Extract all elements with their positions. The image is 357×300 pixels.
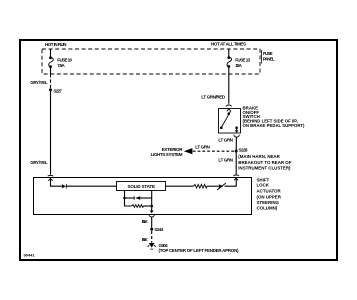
node B <box>150 205 153 208</box>
svg-text:HOT IN RUN: HOT IN RUN <box>45 42 67 47</box>
svg-text:BLK: BLK <box>142 219 149 224</box>
svg-text:(TOP CENTER OF LEFT FENDER APR: (TOP CENTER OF LEFT FENDER APRON) <box>159 248 240 253</box>
connector at shift lock actuator left entry <box>48 175 54 180</box>
svg-text:FUSE 13: FUSE 13 <box>235 58 250 63</box>
svg-text:90441: 90441 <box>24 253 36 258</box>
label FUSE PANEL <box>262 50 276 64</box>
node at left pin <box>123 197 126 200</box>
diode D3 <box>134 196 140 200</box>
wire node down and to resistor R2 <box>125 198 132 206</box>
svg-text:SOLID STATE: SOLID STATE <box>128 184 156 189</box>
svg-text:GRY/YEL: GRY/YEL <box>30 80 48 85</box>
splice S228 <box>235 150 238 153</box>
svg-text:LT GRN: LT GRN <box>218 138 233 143</box>
svg-text:LT GRN: LT GRN <box>195 145 210 150</box>
svg-text:15A: 15A <box>235 63 242 68</box>
wire diode D2 to right entry <box>225 179 237 187</box>
label FUSE 13 15A <box>235 58 250 68</box>
label EXTERIOR LIGHTS SYSTEM <box>151 147 184 157</box>
wire solid state left pin down <box>124 191 126 198</box>
resistor R2 <box>132 205 144 208</box>
connector at brake switch input <box>226 105 232 111</box>
svg-text:LT GRN/RED: LT GRN/RED <box>201 94 226 99</box>
wire (dashed) S228 to exterior lights system <box>188 150 235 152</box>
wire fuse F13 to brake switch <box>228 66 230 103</box>
ground G304 <box>148 243 156 249</box>
svg-text:PANEL: PANEL <box>263 57 275 62</box>
wire solid state to resistor R1 <box>166 185 194 187</box>
diagram border frame <box>20 40 337 260</box>
svg-text:G304: G304 <box>159 243 169 248</box>
svg-text:LIGHTS SYSTEM: LIGHTS SYSTEM <box>151 152 183 157</box>
resistor R1 <box>193 184 206 188</box>
wire solid state right pin down <box>151 191 153 206</box>
fuse panel (dashed box) <box>42 49 260 74</box>
svg-text:(MAIN HARN, NEAR: (MAIN HARN, NEAR <box>238 154 280 159</box>
wire S227 to shift lock actuator connector <box>50 90 52 175</box>
svg-text:COLUMN): COLUMN) <box>257 206 278 211</box>
svg-text:BLK: BLK <box>142 237 149 242</box>
svg-text:FUSE 10: FUSE 10 <box>57 57 72 62</box>
svg-text:INSTRUMENT CLUSTER): INSTRUMENT CLUSTER) <box>238 165 291 170</box>
svg-text:HOT AT ALL TIMES: HOT AT ALL TIMES <box>211 42 246 47</box>
wire (dashed) S244 to ground <box>151 231 153 243</box>
wire S228 to shift lock actuator <box>235 151 237 175</box>
wire exit to splice S244 <box>151 217 153 228</box>
wire brake switch to splice S228 <box>235 137 237 151</box>
svg-text:(ON UPPER: (ON UPPER <box>257 195 282 200</box>
splice S244 <box>150 228 153 231</box>
diode D2 (with slash) <box>217 183 226 190</box>
shift lock actuator box <box>34 178 252 215</box>
wire node to diode D3 <box>125 197 135 199</box>
wire diode D3 to right vertical <box>140 197 151 199</box>
svg-text:ACTUATOR: ACTUATOR <box>257 189 282 194</box>
svg-text:S244: S244 <box>154 227 163 232</box>
diode D1 <box>62 184 67 188</box>
svg-text:STEERING: STEERING <box>257 200 280 205</box>
wire left entry to diode D1 <box>51 179 62 186</box>
brake on/off switch U1 <box>219 109 241 134</box>
label BRAKE ON/OFF SWITCH (BEHIND LEFT SIDE OF I/P, ON BRAKE PEDAL SUPPORT) <box>243 106 306 128</box>
wire diode D1 to solid state module <box>66 185 117 187</box>
wire resistor R2 to node B <box>143 205 151 207</box>
svg-text:GRY/YEL: GRY/YEL <box>30 160 48 165</box>
svg-text:FUSE: FUSE <box>263 51 273 56</box>
svg-text:7.5A: 7.5A <box>57 63 65 68</box>
svg-text:LOCK: LOCK <box>257 183 270 188</box>
connector at shift lock actuator right entry <box>233 175 239 180</box>
connector at shift lock actuator bottom exit <box>149 211 154 217</box>
svg-text:LT GRN: LT GRN <box>218 158 233 163</box>
label SHIFT LOCK ACTUATOR (ON UPPER STEERING COLUMN) <box>257 177 282 210</box>
fuse F13 <box>227 49 232 67</box>
connector at brake switch output <box>234 128 239 137</box>
splice S227 <box>49 88 52 91</box>
svg-text:BREAKOUT TO REAR OF: BREAKOUT TO REAR OF <box>238 160 291 165</box>
label (MAIN HARN, NEAR BREAKOUT TO REAR OF INSTRUMENT CLUSTER) <box>238 154 291 170</box>
arrow to exterior lights system <box>184 148 193 154</box>
wire (dashed) fuse F10 to splice S227 <box>50 74 52 88</box>
solid state module <box>117 182 166 191</box>
svg-text:S227: S227 <box>53 88 62 93</box>
svg-text:ON BRAKE PEDAL SUPPORT): ON BRAKE PEDAL SUPPORT) <box>243 123 306 128</box>
svg-text:S228: S228 <box>239 148 248 153</box>
fuse F10 <box>49 49 54 74</box>
wire resistor R1 to diode D2 <box>207 185 219 187</box>
wire node B to bottom connector <box>151 206 153 211</box>
label FUSE 10 7.5A <box>57 57 72 68</box>
